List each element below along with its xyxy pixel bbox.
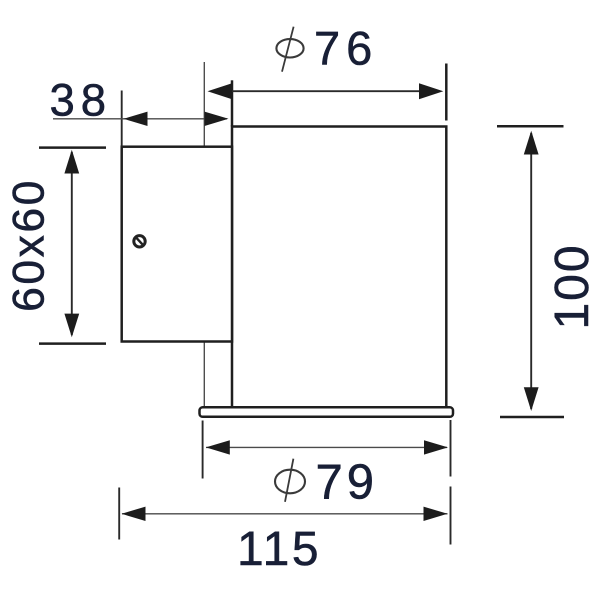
dimension 115 label <box>237 523 321 576</box>
dimension phi76 arrow right <box>419 83 443 99</box>
dimension 60x60 arrow bottom <box>64 314 79 338</box>
svg-text:76: 76 <box>314 22 378 75</box>
dimension 38 label <box>50 75 113 126</box>
dimension 100 extension line bottom <box>500 416 564 419</box>
dimension 100 line <box>530 133 532 409</box>
dimension 60x60 extension line top <box>39 146 106 149</box>
hidden line (glass diameter reference) upper segment <box>203 62 205 147</box>
dimension 60x60 extension line bottom <box>39 342 106 345</box>
svg-text:79: 79 <box>316 456 379 510</box>
dimension 38 line <box>53 118 227 120</box>
svg-text:100: 100 <box>546 243 599 329</box>
dimension phi76 label <box>276 22 378 75</box>
dimension 115 arrow left <box>122 507 146 521</box>
dimension 115 extension line left <box>118 488 120 540</box>
dimension 60x60 arrow top <box>64 150 79 174</box>
screw <box>134 236 145 247</box>
dimension 115 arrow right <box>424 507 448 521</box>
dimension 100 arrow bottom <box>524 387 539 411</box>
dimension 60x60 label <box>5 178 54 312</box>
svg-text:60x60: 60x60 <box>5 178 54 312</box>
dimension 100 label <box>546 243 599 329</box>
dimension 60x60 line <box>71 152 73 335</box>
dimension phi79 label <box>275 456 378 510</box>
dimension 38 arrow left <box>124 112 148 126</box>
dimension phi76 extension line right <box>445 64 448 121</box>
dimension phi79 arrow right <box>424 440 448 454</box>
dimension phi76 arrow left <box>208 83 233 99</box>
dimension 38 arrow right <box>205 112 229 126</box>
dimension 115 extension line right <box>450 487 452 545</box>
dimension phi76 line <box>230 90 421 92</box>
dimension 100 extension line top <box>497 125 564 128</box>
dimension phi79 extension line left <box>202 421 204 479</box>
dimension 38 extension line left <box>121 91 123 147</box>
dimension phi79 extension line right <box>450 420 452 477</box>
dimension phi79 arrow left <box>206 440 230 454</box>
dimension 100 arrow top <box>524 131 539 155</box>
dimension 115 line <box>122 513 448 515</box>
mounting bracket <box>122 147 232 342</box>
svg-text:115: 115 <box>237 523 321 576</box>
svg-text:38: 38 <box>50 75 113 126</box>
base plate flange <box>200 407 454 417</box>
dimension phi79 line <box>206 446 447 448</box>
hidden line (glass diameter reference) lower segment <box>203 342 205 407</box>
cylinder body <box>232 80 446 407</box>
